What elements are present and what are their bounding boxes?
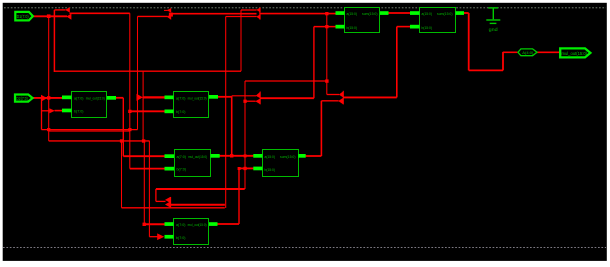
block A3 adder [253,150,305,177]
svg-text:a(15:0): a(15:0) [347,11,358,16]
wire cluster3 output y204.8 [171,204,225,206]
svg-text:mul_out(15:0): mul_out(15:0) [188,222,208,227]
wire cluster2 lower input y100.8 [321,100,338,102]
wire M2.b feed y111.3 [130,110,166,112]
svg-text:b(7:0): b(7:0) [177,167,187,172]
wire A2.out y13 [463,12,469,14]
wire short top segment y9.9 [54,9,65,11]
wire cluster1 lower input y101.2 [245,100,256,102]
wire to hexagon y52 [503,51,517,53]
svg-text:a(7:0): a(7:0) [177,154,187,159]
red arrow triangles [41,7,344,240]
input port P1 [15,12,33,21]
svg-text:mul_out(15:0): mul_out(15:0) [562,51,588,56]
wire vertical x149.4 to M4.b [148,141,150,237]
junction y139.3 x121.5 [120,139,123,142]
wire M4.out y224 [216,223,239,225]
wire thick y189 [156,188,245,190]
arrow T3 upper [256,7,260,12]
output port P3 [560,48,590,57]
wire stub y10.4 at T2 [164,9,168,11]
wire cluster3 bar [170,197,172,207]
wire horizontal y207.8 [122,207,225,209]
junction x231.7 y155.8 [230,154,233,157]
wire vertical x468.7 [468,13,470,70]
wire vertical x313.9 to A1.b [313,27,315,99]
svg-text:mul_out(15:0): mul_out(15:0) [188,154,208,159]
wire vertical x241 [240,10,242,71]
input port P2 [15,95,33,102]
wire vertical x225.7 long drop [225,17,227,209]
block M3 mult [165,150,220,177]
arrow T3 lower [256,14,260,20]
wire vertical x503 [502,52,504,71]
wire horizontal y139.3 [49,140,150,142]
svg-text:D2(7:0): D2(7:0) [16,96,28,101]
wire A1.out to A2.a y13 [387,12,410,14]
wire vertical x396.8 to A2.b [396,27,398,98]
junction x245 y101.2 [243,100,246,103]
wire vertical x121.5 [121,141,123,208]
junction x143.1 y224.3 [143,223,146,226]
wire M4.a feed y224.3 [144,223,165,225]
arrow port2 buffer [41,95,47,102]
wire vertical x129.8 bus drop to M3.b [129,13,131,168]
junction x143.6 y140.9 [142,139,145,142]
wire vertical x123.3 M1.out drop [122,98,124,156]
wire segment y10 into cluster T3 [241,9,257,11]
wire M3.out to A3.a y155.8 [211,155,254,157]
junction M2.b tap [128,110,131,113]
wire M1.out y97.8 [115,97,123,99]
junction x130 y129.6 [128,128,131,131]
sheet border dashed bottom [3,246,606,248]
wire hexagon to outport y52 [536,51,559,53]
wire A3.out riser x321.4 [320,101,322,156]
wire vertical x54.4 [53,10,55,72]
block A2 adder [410,8,464,33]
svg-text:sum(15:0): sum(15:0) [362,11,378,16]
svg-text:sum(15:0): sum(15:0) [280,154,296,159]
wire cluster1 output y98.2 [260,97,314,99]
wire vertical x231.7 M2.out drop [231,96,233,156]
junction x239 y168.4 [238,167,241,170]
svg-text:a(15:0): a(15:0) [265,154,276,159]
junction port2 wire crossing [47,96,50,99]
wire segment y16.4 into cluster T2 [138,15,168,17]
wire M2.out y96.8 [218,96,232,98]
wire vertical x48.7 port1 drop [48,16,50,141]
wire horizontal y131.1 [49,130,130,132]
wire M2.a feed y97.4 [143,96,167,98]
svg-text:b(15:0): b(15:0) [265,167,276,172]
wire vertical x137.5 [137,16,139,129]
block A1 adder [336,8,389,33]
wire cluster1 bar [259,92,261,105]
wire vertical x41.5 port2 drop [41,98,43,130]
sheet border dashed top [4,7,606,9]
svg-text:a(7:0): a(7:0) [176,95,186,100]
wire horizontal y70.4 [469,69,503,71]
svg-text:a(7:0): a(7:0) [74,95,84,100]
arrow M2.a buffer [137,94,143,101]
wire A3.out y156 [305,155,321,157]
wire vertical x245 [244,81,246,189]
arrow M4.b buffer [157,233,164,240]
arrow T2 upper [167,8,172,13]
svg-text:sum(15:0): sum(15:0) [437,11,453,16]
junction port1 wire [47,14,51,18]
arrow T2 lower [167,14,172,20]
junction A1.b x326.8 [325,25,328,28]
wire M1.b feed y110.6 [55,110,63,112]
wire M1.b stub y110.8 [42,110,50,112]
svg-text:b(15:0): b(15:0) [347,25,358,30]
wire vertical x239 M4.out riser [238,168,240,224]
arrow cluster1 lower [255,98,260,104]
wire A3.b feed y168.4 [238,167,253,169]
wire T3 bar [259,8,261,20]
block M4 mult [165,219,218,245]
svg-text:A(4:0): A(4:0) [522,50,534,55]
hexagon tag [518,49,537,56]
wire top bus segment 1 [70,12,130,14]
block M2 mult [165,92,219,118]
svg-text:mul_out(15:0): mul_out(15:0) [188,96,208,101]
wire mid bus y71.2 [54,70,241,72]
svg-text:gnd: gnd [489,27,499,32]
svg-text:b(7:0): b(7:0) [176,109,186,114]
arrow cluster3 upper [165,197,171,203]
svg-text:b(15:0): b(15:0) [422,25,433,30]
svg-text:a(15:0): a(15:0) [422,11,433,16]
wire vertical x155.9 [155,189,157,201]
wire cluster2 upper corner y94.5 [327,94,339,96]
svg-text:b(7:0): b(7:0) [74,108,84,113]
wire cluster1 upper input y95.8 [232,95,256,97]
junction x327 y81 [325,79,328,82]
junction x245 y168.4 [243,167,246,170]
junction x245 y155.8 [244,154,247,157]
wire top bus segment 2 [171,13,257,15]
arrow M1.b buffer [49,108,55,113]
block M1 mult [62,92,116,118]
svg-text:b(7:0): b(7:0) [176,235,186,240]
arrow T1 upper [65,7,70,12]
svg-text:D1(7:0): D1(7:0) [17,14,29,19]
wire port2 horizontal y97.9 [33,97,63,99]
wire vertical x143.1 to M4.a [142,71,144,141]
arrow cluster2 lower [338,98,343,104]
svg-text:mul_out(15:0): mul_out(15:0) [86,96,106,101]
junction blob T2 [169,13,173,17]
wire segment y16.5 into cluster T3 [226,16,257,18]
wire top bus segment 3 [260,13,336,15]
wire M3.a feed y156.2 [123,155,165,157]
wire cluster3 thin input y201.4 [156,200,166,202]
wire A2.b feed y26.6 [397,26,410,28]
wire M4.b lead [149,236,157,238]
svg-text:a(7:0): a(7:0) [176,222,186,227]
wire A1.b feed y26.6 [314,26,336,28]
arrow cluster2 upper [339,91,344,98]
wire vertical x326.8 bus drop [326,13,328,95]
arrow T1 lower [66,14,71,20]
wire cluster2 output y97.4 [343,96,396,98]
arrow cluster1 upper [256,92,261,99]
junction x326.8 y13.6 [325,12,328,15]
junction x48.7 y129.6 [47,128,50,131]
wire cluster2 bar [342,91,344,105]
ground symbol [486,8,500,24]
wire horizontal y129.6 [42,129,138,131]
wire port1 horizontal y16.3 [34,15,68,17]
wire horizontal y81 [245,80,327,82]
arrow cluster3 lower [165,201,171,207]
wire vertical x144.3 to M4.a [143,141,145,224]
wire M3.b feed y168.6 [130,168,165,170]
